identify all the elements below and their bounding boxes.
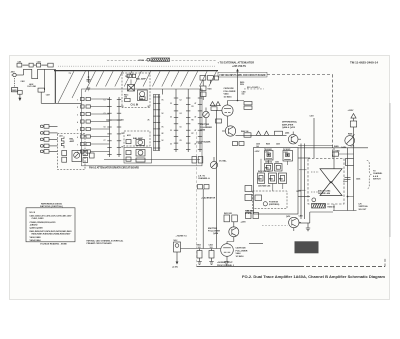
board input resistors R478 — [245, 186, 252, 201]
svg-text:+ TO EXTERNAL ATTENUATOR: + TO EXTERNAL ATTENUATOR — [218, 61, 255, 65]
reference designations list — [30, 212, 73, 242]
svg-text:5: 5 — [77, 130, 78, 132]
svg-text:BAL AMP: BAL AMP — [136, 78, 146, 81]
inductor L431 vertical squiggle — [61, 137, 64, 149]
resistor R435 — [136, 158, 145, 162]
channel switch note — [373, 171, 383, 181]
svg-text:A & B: A & B — [373, 175, 379, 178]
svg-text:(DC+COUPL): (DC+COUPL) — [247, 87, 260, 89]
resistor R431 — [126, 151, 131, 155]
tube V464 — [221, 242, 234, 262]
trigger pickoff diode box 2 — [283, 149, 293, 161]
differential amplifier label — [282, 121, 298, 130]
svg-text:FOLLOWER: FOLLOWER — [224, 91, 236, 93]
delay line L402 squiggle — [24, 69, 45, 78]
reference designations title — [40, 203, 63, 208]
delay line driver dashed box — [308, 159, 344, 205]
emitter ground — [306, 223, 310, 231]
driver hatched label — [312, 204, 326, 209]
svg-text:R3: R3 — [192, 106, 194, 108]
resistor R411 — [127, 74, 131, 77]
resistor pair R459 — [198, 185, 210, 189]
svg-text:PARTIAL 1A60 CHANNEL B VERTICA: PARTIAL 1A60 CHANNEL B VERTICAL — [87, 239, 124, 242]
sense wire — [347, 148, 349, 211]
main board left boundary dashed — [196, 132, 198, 267]
corner resistors R408 — [83, 151, 94, 163]
svg-text:FO-2. Dual Trace Amplifier 1A6: FO-2. Dual Trace Amplifier 1A60A, Channe… — [242, 275, 385, 279]
squiggle drop to matching network — [44, 69, 46, 90]
svg-text:Q444: Q444 — [200, 129, 206, 132]
calibrator feed wire — [202, 189, 204, 249]
delay line coupling transformer T494 upper triangle — [320, 169, 342, 183]
svg-text:C5: C5 — [104, 127, 106, 129]
resistor R485 — [279, 173, 287, 184]
transistor Q444 — [222, 126, 236, 136]
svg-text:R5: R5 — [192, 120, 194, 122]
svg-text:2: 2 — [77, 107, 78, 109]
base supply resistors R453 C453 — [224, 212, 247, 227]
dashed feedback wire — [262, 225, 288, 227]
svg-text:(DELAY LINE): (DELAY LINE) — [318, 189, 331, 192]
svg-text:C2: C2 — [180, 100, 182, 102]
svg-text:+225V: +225V — [255, 151, 261, 153]
transistor Q414 — [138, 90, 148, 101]
channel switch bracket — [367, 161, 372, 189]
svg-text:33: 33 — [170, 130, 172, 132]
position control dashed box — [253, 191, 288, 209]
svg-text:33: 33 — [170, 103, 172, 105]
svg-text:103: 103 — [242, 94, 245, 96]
reference designations box — [26, 208, 75, 242]
wire L408 to board — [40, 92, 42, 103]
svg-text:FOLLOWER: FOLLOWER — [236, 250, 248, 252]
svg-text:(DEPRESS): (DEPRESS) — [269, 204, 280, 206]
resistor R421 — [126, 140, 131, 144]
svg-text:V454,V464: V454,V464 — [30, 239, 42, 242]
svg-text:-(2.5V): -(2.5V) — [172, 267, 178, 269]
svg-text:C491,C493: C491,C493 — [32, 217, 45, 220]
svg-text:R484: R484 — [269, 178, 273, 181]
inter-stage connecting stubs — [268, 160, 270, 164]
svg-text:C400,C458,C471,C474,C476,C478,: C400,C458,C471,C474,C476,C478,C481,C487 — [30, 215, 73, 218]
balance network R412 — [128, 85, 135, 92]
svg-text:CAL IN: CAL IN — [131, 104, 139, 107]
capacitor row C401-C404 — [17, 60, 53, 67]
resistor R415 — [140, 97, 146, 100]
dashed annotation line to external attenuator — [107, 60, 216, 62]
transistor Q474 — [286, 215, 299, 231]
svg-text:R481: R481 — [265, 166, 269, 169]
svg-text:TM 11-6625-2460-14: TM 11-6625-2460-14 — [350, 61, 378, 65]
svg-text:GAIN: GAIN — [341, 146, 347, 149]
trimmer capacitor C442 — [203, 111, 209, 128]
svg-text:CHANNEL A: CHANNEL A — [198, 177, 210, 180]
+225v decoupling stack — [348, 110, 357, 127]
emitter follower Q444 label — [200, 124, 212, 132]
cathode follower V454 label — [224, 87, 236, 98]
50 ohm input amplifier board label — [218, 72, 267, 77]
grid resistor R452 — [216, 119, 222, 123]
svg-text:DC BAL: DC BAL — [219, 160, 227, 163]
delay line network C493 — [333, 150, 340, 157]
hatch shading on board edge — [58, 71, 217, 103]
right board boundary line — [389, 103, 391, 237]
svg-text:FW-0.2 ATTENUATOR DRIVER CIRCU: FW-0.2 ATTENUATOR DRIVER CIRCUIT BOARD — [89, 167, 139, 170]
svg-text:+ NORM 7.5: + NORM 7.5 — [176, 236, 188, 238]
svg-text:R446 104: R446 104 — [241, 130, 248, 133]
transistor Q424 — [136, 140, 145, 146]
svg-text:C402: C402 — [21, 80, 25, 83]
svg-text:FOLLOWER: FOLLOWER — [200, 127, 212, 129]
Q474 emitter output wire — [299, 222, 310, 224]
driver output stub — [333, 204, 335, 211]
attenuator ladder section 3b — [157, 95, 160, 151]
x10 gain sub-board dashed outline — [58, 134, 86, 170]
input connector column P401 — [77, 97, 110, 154]
svg-text:C407: C407 — [46, 94, 50, 97]
svg-text:DRIVER L494: DRIVER L494 — [318, 192, 331, 195]
svg-text:1/2 8416: 1/2 8416 — [224, 95, 233, 98]
svg-text:R488: R488 — [348, 133, 352, 136]
divider triangles — [210, 102, 220, 111]
svg-text:GND: GND — [12, 90, 17, 92]
load resistors R456 C456 — [246, 210, 259, 219]
channel A note — [198, 176, 210, 181]
svg-text:PICKOFF: PICKOFF — [283, 149, 290, 151]
resistor R482 — [275, 164, 283, 172]
resistor R476 — [275, 131, 283, 135]
ladder feed stubs from board top — [162, 89, 164, 95]
signal wire to differential amplifier — [236, 134, 287, 136]
wire transformer tap — [343, 180, 348, 182]
svg-text:AMP: AMP — [70, 140, 75, 143]
dashed board boundary right edge — [332, 75, 334, 160]
resistor R481 — [265, 164, 273, 172]
resistor R483 — [258, 173, 265, 184]
svg-text:DIFFERENTIAL: DIFFERENTIAL — [282, 121, 298, 124]
attenuator ladder section 5 — [186, 96, 190, 153]
svg-text:Q400,Q458: Q400,Q458 — [30, 226, 44, 229]
svg-text:R496 5K: R496 5K — [328, 206, 336, 209]
svg-text:NO. B: NO. B — [30, 212, 36, 214]
svg-text:Q454: Q454 — [213, 232, 219, 235]
vertical sig out label — [359, 204, 369, 211]
main board bottom boundary — [197, 266, 301, 268]
svg-text:V454: V454 — [224, 93, 230, 96]
svg-text:103: 103 — [198, 247, 201, 249]
input shunt network and ground — [18, 80, 25, 101]
svg-text:R400,R458,R471,R474,R476,R478,: R400,R458,R471,R474,R476,R478,R481,R483 — [30, 230, 73, 233]
amplifier input labels row — [256, 143, 280, 149]
capacitor C463 — [209, 244, 215, 265]
svg-text:TRIGGER: TRIGGER — [264, 149, 272, 151]
resistor R432 — [126, 157, 131, 161]
attenuator ladder section 4 — [174, 96, 178, 153]
svg-text:FROM: FROM — [139, 60, 145, 62]
svg-text:C472: C472 — [310, 115, 314, 118]
trigger pickoff diode box 1 — [264, 149, 273, 160]
svg-text:R441: R441 — [208, 88, 212, 91]
svg-text:V464: V464 — [236, 252, 242, 255]
tube V454 — [217, 101, 234, 127]
svg-text:VERTICAL: VERTICAL — [359, 205, 369, 208]
long wire to output cathode follower — [216, 111, 218, 249]
input network components C441 R441 — [200, 76, 219, 112]
junction dot — [347, 196, 349, 198]
board edge dotted shield line — [58, 65, 216, 67]
attenuator ladder section 2 — [117, 97, 121, 157]
attenuator driver circuit board outline — [82, 89, 203, 166]
lower board dashed boundary — [300, 266, 385, 268]
transistor Q454 — [229, 227, 239, 242]
svg-text:R7: R7 — [192, 133, 194, 135]
svg-text:R489: R489 — [334, 145, 339, 148]
resistor R433 — [62, 151, 67, 156]
tube cathode ground — [224, 262, 228, 265]
trigger coupling highlighted label — [139, 58, 170, 62]
svg-text:Q464 & Q474: Q464 & Q474 — [282, 126, 296, 129]
grid wire to V464 — [181, 248, 221, 250]
ladder bottom wire — [104, 159, 200, 161]
svg-text:R485: R485 — [279, 178, 283, 181]
x10 bal amp sub-board box — [124, 131, 150, 146]
svg-text:SIG OUT: SIG OUT — [359, 209, 368, 211]
wire input to delay line — [16, 74, 23, 76]
resistors R450 C450 — [242, 91, 253, 110]
svg-text:Q474: Q474 — [286, 215, 290, 218]
channel input connectors J421-J424 — [40, 125, 57, 154]
svg-text:DLY LINE: DLY LINE — [28, 86, 37, 88]
transistor Q434 — [136, 150, 145, 157]
svg-text:Q464: Q464 — [285, 132, 289, 135]
attenuator ladder section 3a — [154, 95, 157, 151]
redacted stamp block — [295, 241, 319, 253]
emitter follower Q454 label — [208, 228, 220, 235]
damping triangles — [256, 131, 261, 135]
supply riser wire — [353, 127, 355, 159]
dashed board boundary right of label — [267, 74, 333, 76]
svg-text:R485,R487,R489,R493,R494,R495,: R485,R487,R489,R493,R494,R495,R497 — [32, 233, 72, 236]
gain network bus — [333, 147, 368, 149]
svg-text:PREAMP CIRCUIT BOARD: PREAMP CIRCUIT BOARD — [87, 242, 113, 245]
output bus lower — [333, 210, 357, 212]
svg-text:C6: C6 — [180, 127, 182, 129]
svg-text:+225V: +225V — [241, 222, 247, 224]
squiggle tail to bus riser — [45, 68, 56, 70]
capacitor tick C496 — [345, 178, 361, 181]
top circuit board boundary bus — [54, 70, 218, 72]
svg-text:NE-2: NE-2 — [174, 240, 178, 242]
svg-text:6: 6 — [77, 137, 78, 139]
negative supply arrow — [172, 252, 178, 269]
wire Q464 collector to gain network — [298, 147, 333, 149]
svg-text:1: 1 — [77, 100, 78, 102]
output wire to switch — [249, 243, 263, 245]
bottom right corner resistors R438 R439 — [192, 157, 203, 164]
svg-text:33: 33 — [170, 144, 172, 146]
transistor Q464 — [285, 132, 298, 145]
svg-text:FOR 50Ω INPUT AMPL FOR CIRCUIT: FOR 50Ω INPUT AMPL FOR CIRCUIT BOARD — [220, 74, 266, 77]
interconnect wire — [106, 119, 122, 121]
driver box caption — [318, 189, 336, 208]
svg-text:J401: J401 — [11, 71, 15, 74]
+225 volts feed wire — [237, 71, 239, 101]
svg-text:VOLTAGE READING - NONE: VOLTAGE READING - NONE — [40, 242, 67, 245]
transistor Q434 box — [72, 151, 82, 162]
svg-text:EMITTER: EMITTER — [200, 124, 210, 126]
main amplifier board outline — [254, 148, 299, 215]
grid feed wire — [228, 100, 245, 102]
output bal amp sub-board box — [124, 148, 152, 164]
resistor R463 — [197, 244, 203, 265]
decoupling capacitor C409 on bus — [87, 71, 91, 91]
svg-text:+225 VOLTS: +225 VOLTS — [232, 65, 246, 68]
box input riser — [313, 118, 315, 158]
svg-text:SWITCH: SWITCH — [373, 179, 381, 181]
svg-text:R6: R6 — [122, 133, 124, 135]
ladder value labels — [104, 100, 197, 149]
gain potentiometer R489 — [341, 135, 355, 149]
transformer feed riser — [333, 148, 335, 169]
adjust symbol in driver box — [312, 198, 316, 202]
position potentiometer — [263, 202, 267, 206]
series resistor R446 — [244, 133, 251, 137]
svg-text:R8: R8 — [122, 147, 124, 149]
svg-text:C7: C7 — [104, 140, 106, 142]
svg-text:C3: C3 — [104, 113, 106, 115]
circuit note — [245, 211, 255, 216]
svg-text:224: 224 — [140, 98, 143, 101]
wire amp to delay line box — [298, 157, 310, 159]
delay line matching network L408 — [38, 88, 44, 92]
svg-text:3: 3 — [77, 115, 78, 117]
transformer tap dashes — [311, 171, 319, 173]
svg-text:C8: C8 — [180, 140, 182, 142]
delay line coupling transformer T494 lower triangle — [320, 182, 342, 196]
wire Q454 emitter to V464 grid — [227, 241, 234, 243]
cathode follower V464 label — [236, 247, 248, 258]
svg-text:33: 33 — [170, 117, 172, 119]
attenuator ladder section 1 — [107, 97, 111, 157]
svg-text:+NORMAL INPUT: +NORMAL INPUT — [217, 261, 233, 264]
resistor R434 — [62, 157, 67, 162]
svg-text:7: 7 — [77, 145, 78, 147]
partial board note — [87, 239, 124, 245]
svg-text:CATHODE: CATHODE — [224, 87, 235, 90]
svg-text:V400,V488: V400,V488 — [30, 236, 42, 239]
resistor R484 — [269, 173, 277, 184]
svg-text:AMPLIFIER: AMPLIFIER — [282, 123, 294, 126]
svg-text:103: 103 — [210, 247, 213, 249]
resistor R487 — [255, 195, 262, 201]
svg-text:C498: C498 — [299, 215, 303, 218]
svg-text:R483: R483 — [258, 178, 262, 181]
svg-text:C1: C1 — [104, 100, 106, 102]
normal input note — [217, 261, 234, 267]
svg-text:1/2 8416: 1/2 8416 — [236, 255, 245, 258]
svg-text:CATHODE: CATHODE — [236, 247, 247, 250]
svg-text:+CHOP BLANK: +CHOP BLANK — [196, 141, 211, 144]
delay line section box — [153, 95, 159, 151]
resistors R455 C455 — [233, 142, 245, 146]
input amp sub-board box — [122, 73, 150, 108]
collector bus wires — [300, 144, 302, 220]
svg-text:NATIONS (PARTIAL): NATIONS (PARTIAL) — [40, 205, 63, 208]
dc bal potentiometer R457 — [210, 157, 227, 169]
attenuator ladder section 6 — [198, 96, 202, 153]
svg-text:+225V: +225V — [348, 110, 355, 112]
connector J401 INPUT — [11, 71, 18, 92]
svg-text:CHANNEL: CHANNEL — [373, 172, 383, 175]
bus riser — [54, 69, 56, 103]
svg-text:CR400,CR458,R393,A135: CR400,CR458,R393,A135 — [30, 221, 57, 224]
svg-text:R495: R495 — [336, 150, 340, 153]
wire C493 to supply — [339, 153, 354, 155]
svg-text:C496: C496 — [356, 178, 360, 181]
resistor R493 — [346, 159, 354, 166]
neon lamp B464 — [174, 240, 181, 252]
